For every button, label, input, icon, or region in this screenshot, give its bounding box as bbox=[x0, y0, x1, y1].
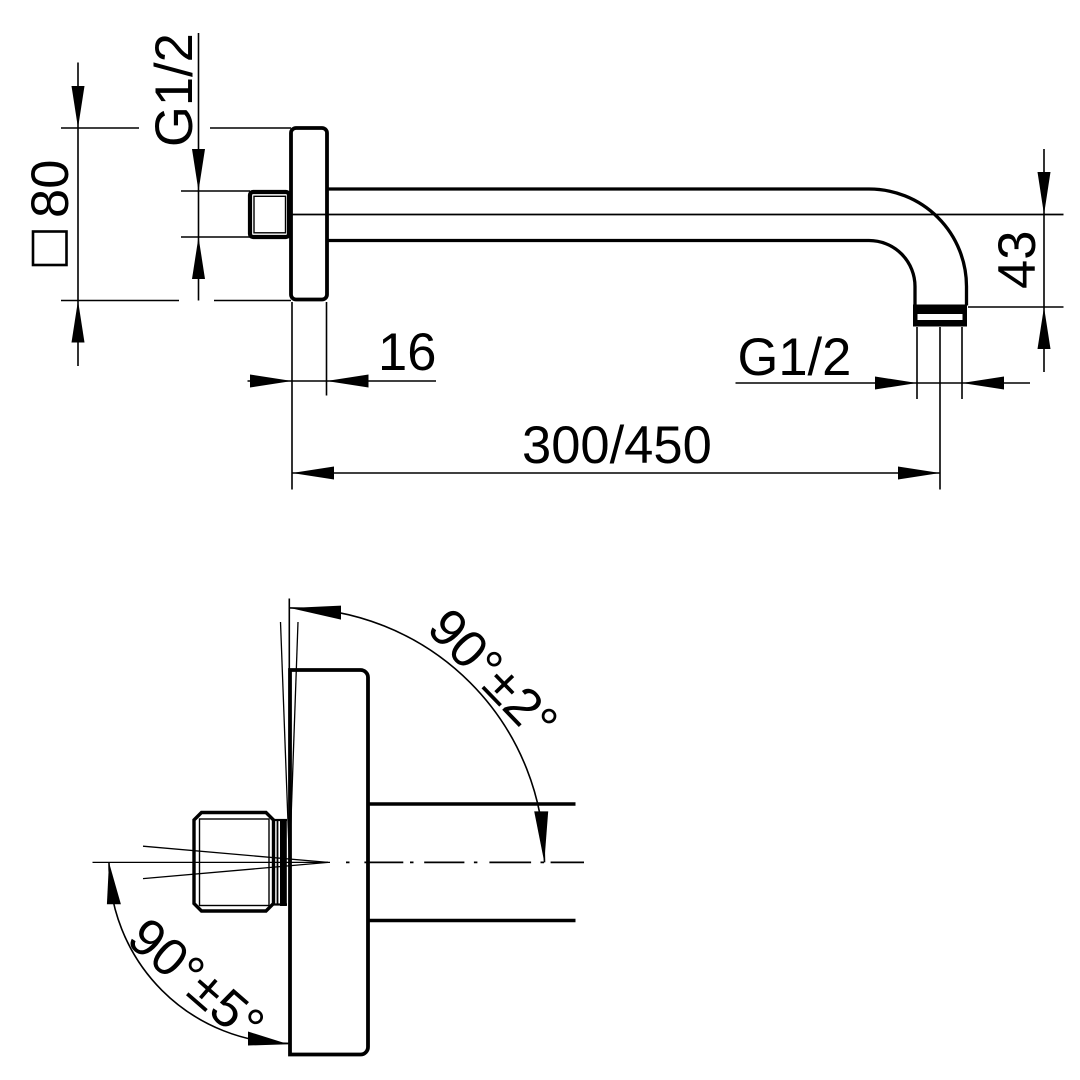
nipple runout top edge bbox=[274, 819, 288, 821]
arc dimension 90+-5 bbox=[109, 862, 290, 1043]
dim 300/450 dimension line bbox=[292, 472, 940, 474]
arm tube inner contour (bottom edge with bend) bbox=[327, 241, 915, 306]
nipple runout groove line bbox=[277, 820, 279, 905]
outlet collar right wall bbox=[963, 305, 968, 327]
dim 80 dimension line bbox=[77, 63, 79, 367]
arc dimension 90+-2 bbox=[290, 608, 545, 863]
dim 16 dimension line bbox=[248, 380, 437, 382]
dim 43 dimension line bbox=[1043, 149, 1045, 372]
dim G1/2 (outlet) right arrow bbox=[962, 377, 1004, 390]
tolerance fan +-5deg upper line bbox=[143, 846, 328, 862]
outlet pipe extension line left bbox=[916, 327, 918, 399]
wall nipple thread root (inner line) bbox=[254, 196, 286, 233]
dim 16 right extension line (flange right edge extended) bbox=[326, 302, 328, 396]
dim 80 upper extension line bbox=[61, 127, 291, 129]
arc 90+-5 lower arrow bbox=[248, 1032, 289, 1046]
dim 43 lower extension line bbox=[968, 306, 1064, 308]
arc 90+-2 upper arrow bbox=[290, 606, 341, 620]
nipple thread root inner rect bbox=[200, 819, 270, 906]
wall nipple G1/2 thread (side view, outer) bbox=[250, 192, 289, 237]
vertical extension line above flange bbox=[288, 599, 290, 672]
dim 43 lower arrow bbox=[1038, 307, 1051, 349]
outlet collar left wall bbox=[913, 305, 918, 327]
svg-text:300/450: 300/450 bbox=[522, 416, 712, 475]
tolerance fan +-5deg lower line bbox=[143, 862, 328, 878]
nipple (front view, chamfered thread body) bbox=[194, 813, 274, 912]
dim 80 upper arrow bbox=[72, 86, 85, 128]
svg-text:16: 16 bbox=[378, 323, 436, 382]
dim 300/450 left arrow bbox=[292, 467, 334, 480]
nipple runout bottom edge bbox=[274, 903, 288, 905]
dim G1/2 (outlet) left arrow bbox=[875, 377, 917, 390]
outlet pipe extension line right bbox=[961, 327, 963, 399]
outlet pipe centre extension line bbox=[939, 327, 941, 490]
arm tube upper line (front view) bbox=[368, 802, 576, 805]
dim G1/2 (wall thread) lower arrow bbox=[192, 237, 205, 279]
arm tube lower line (front view) bbox=[368, 919, 576, 922]
dim G1/2 (wall thread) dimension line bbox=[198, 33, 200, 301]
svg-text:43: 43 bbox=[988, 231, 1047, 289]
dim 16 right arrow bbox=[327, 375, 369, 388]
dim 300/450 right arrow bbox=[898, 467, 940, 480]
centre line dash-dot part bbox=[346, 861, 584, 863]
svg-text:G1/2: G1/2 bbox=[145, 33, 204, 147]
svg-text:G1/2: G1/2 bbox=[738, 328, 852, 387]
dim G1/2 (wall thread) upper arrow bbox=[192, 149, 205, 191]
tolerance fan +-2deg left line bbox=[281, 622, 290, 862]
nipple collar band at wall (filled) bbox=[280, 819, 287, 906]
flange (front view) bbox=[290, 670, 368, 1055]
dim G1/2 (wall thread) lower extension line bbox=[181, 236, 250, 238]
dim 16 left extension line (flange left edge extended) bbox=[291, 302, 293, 490]
dim G1/2 (wall thread) upper extension line bbox=[181, 190, 250, 192]
dim 80 lower extension line bbox=[61, 300, 291, 302]
dim G1/2 (outlet) dimension line bbox=[736, 382, 1031, 384]
dim 80 lower arrow bbox=[72, 301, 85, 343]
arc 90+-2 lower arrow bbox=[534, 811, 548, 862]
centre line solid part (nominal axis through nipple) bbox=[93, 861, 331, 863]
arm tube outer contour (top edge with 90-deg bend) bbox=[327, 189, 967, 306]
svg-text:80: 80 bbox=[21, 160, 80, 218]
dim 43 upper arrow bbox=[1038, 172, 1051, 215]
arc 90+-5 upper arrow bbox=[107, 862, 121, 904]
outlet collar bottom band bbox=[913, 320, 967, 327]
square symbol of label 80 bbox=[33, 232, 67, 266]
flange (wall escutcheon, side view) bbox=[291, 128, 327, 300]
outlet end face (dark band) bbox=[913, 305, 967, 315]
arm tube mid line (also extension for dim 43) bbox=[292, 214, 1064, 216]
dim 16 left arrow bbox=[250, 375, 292, 388]
tolerance fan +-2deg right line bbox=[290, 622, 299, 862]
